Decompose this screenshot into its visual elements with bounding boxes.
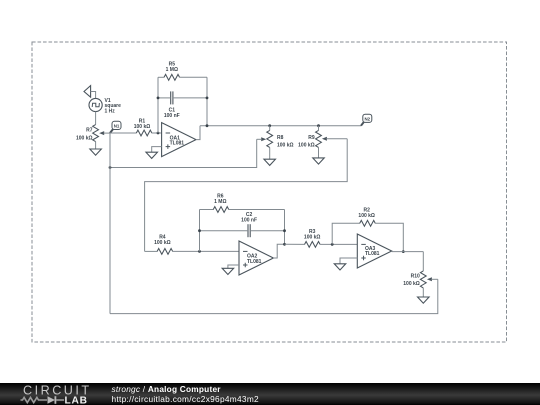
wire R9 wiper loop <box>145 139 348 252</box>
op-amp OA3 <box>357 234 391 268</box>
wire R4 to OA2 <box>172 250 239 252</box>
arrow terminal above V1 <box>84 86 91 98</box>
node flag N1 <box>110 129 114 134</box>
junction R3/R2 <box>331 243 334 246</box>
potentiometer R9 <box>316 130 322 147</box>
source V1 circle <box>89 98 102 111</box>
wire bus to R8 <box>269 126 271 131</box>
wire R8 wiper loop <box>110 139 257 167</box>
wire OA2 plus to ground <box>228 265 239 268</box>
ground under R8 <box>264 159 276 165</box>
dashed selection border <box>32 42 507 342</box>
R7 wiper arrow <box>99 131 104 135</box>
R10 wiper arrow <box>427 277 432 281</box>
wire R8 to ground <box>269 147 271 159</box>
R9 wiper arrow <box>322 137 327 141</box>
capacitor C2 <box>247 224 249 237</box>
resistor R4 <box>157 249 173 255</box>
CircuitLab logo: diode <box>48 396 56 404</box>
wire N1 vertical <box>109 133 111 314</box>
wire OA3 plus to ground <box>340 258 357 264</box>
wire R6 right lead <box>229 209 285 211</box>
wire OA3 output <box>392 251 424 253</box>
wire R10 to ground <box>422 288 424 297</box>
junction R1/feedback <box>157 132 160 135</box>
wire arrow to V1 <box>91 92 96 99</box>
resistor R3 <box>305 242 321 248</box>
CircuitLab logo: resistor squiggle <box>21 397 48 402</box>
wire OA2 output step <box>273 244 284 258</box>
node flag N2 <box>361 121 364 125</box>
junction C2 right <box>283 229 286 232</box>
junction R8 top <box>268 124 271 127</box>
resistor R6 <box>213 207 229 213</box>
wire to R4 <box>145 250 158 252</box>
wire OA1 output bus <box>200 125 361 127</box>
wire R10 wiper loop <box>110 279 438 313</box>
wire feedback left vertical <box>157 77 159 133</box>
wire R2 left vertical <box>332 223 360 244</box>
junction C1 right <box>206 97 209 100</box>
wire C2 left <box>200 230 249 232</box>
wire feedback2 right vertical <box>284 210 286 245</box>
junction R2/output <box>402 250 405 253</box>
wire feedback right vertical <box>206 77 208 125</box>
junction R9 top <box>317 124 320 127</box>
wire C1 left <box>158 97 171 99</box>
R8 wiper arrow <box>261 137 266 141</box>
op-amp OA2 <box>239 241 273 275</box>
wire R6 left lead <box>200 209 214 211</box>
wire N1 to R1 <box>110 132 137 134</box>
junction N1 vertical <box>109 166 112 169</box>
resistor R2 <box>360 220 376 226</box>
capacitor C1 <box>170 91 172 104</box>
wire C2 right <box>250 230 284 232</box>
resistor R5 <box>164 74 180 80</box>
wire output down to R10 <box>422 252 424 271</box>
junction C1 left <box>157 97 160 100</box>
resistor R1 <box>136 130 152 136</box>
op-amp OA1 <box>162 123 196 157</box>
wire feedback2 left vertical <box>199 210 201 252</box>
wire R1 to OA1 <box>152 132 162 134</box>
wire R3 to OA3 <box>320 243 358 245</box>
junction OA2 output <box>283 243 286 246</box>
wire R7 to ground <box>95 142 97 149</box>
svg-text:LAB: LAB <box>65 396 88 405</box>
ground at OA2 <box>222 268 234 274</box>
junction R4/feedback <box>198 250 201 253</box>
junction feedback/output <box>206 124 209 127</box>
wire OA1 output step <box>196 126 200 140</box>
wire bus to R9 <box>318 126 320 131</box>
potentiometer R10 <box>420 271 426 288</box>
potentiometer R7 <box>93 125 99 142</box>
wire R5 left lead <box>158 76 164 78</box>
potentiometer R8 <box>267 130 273 147</box>
wire V1 to R7 <box>95 112 97 125</box>
wire OA1 plus to ground <box>152 147 162 153</box>
ground at OA3 <box>334 264 346 270</box>
wire R5 right lead <box>179 76 207 78</box>
wire C1 right <box>173 97 207 99</box>
ground under R10 <box>418 297 430 303</box>
ground at OA1 <box>146 152 158 158</box>
ground under R9 <box>313 158 325 164</box>
bottom attribution bar <box>0 383 540 405</box>
ground under R7 <box>90 149 102 155</box>
junction C2 left <box>198 229 201 232</box>
wire R9 to ground <box>318 147 320 158</box>
wire R2 right vertical <box>375 223 403 251</box>
wire OA2 out to R3 <box>285 243 305 245</box>
